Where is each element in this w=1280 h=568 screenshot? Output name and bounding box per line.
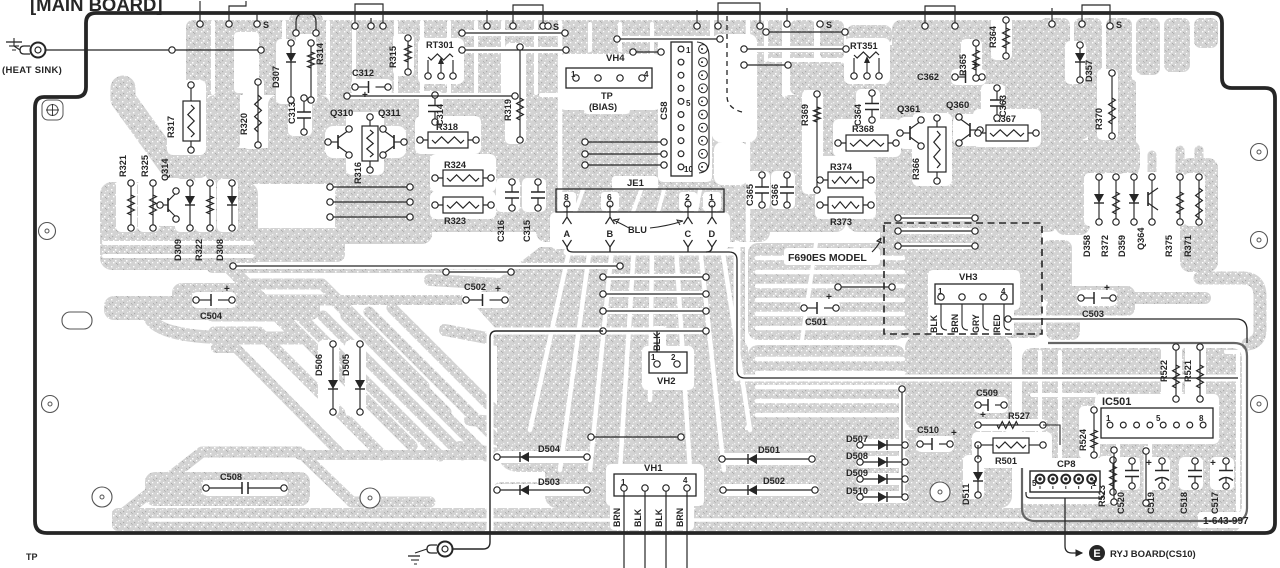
wire — [600, 328, 709, 334]
resistor R320 — [239, 79, 261, 148]
svg-text:VH1: VH1 — [644, 463, 663, 474]
svg-text:BLK: BLK — [929, 314, 939, 333]
slot cutout — [62, 312, 92, 329]
resistor R314 — [308, 40, 325, 103]
svg-text:S: S — [1116, 20, 1122, 30]
svg-text:+: + — [495, 284, 501, 295]
svg-text:1: 1 — [1106, 414, 1111, 423]
capacitor C518 — [1179, 458, 1202, 514]
mounting hole — [360, 488, 380, 508]
wire stub — [254, 12, 269, 30]
svg-text:1: 1 — [1092, 479, 1097, 488]
wires VH3 leads — [941, 304, 1010, 330]
capacitor C509 — [975, 388, 1007, 421]
svg-text:2: 2 — [671, 353, 676, 362]
connector CP8 — [1026, 459, 1104, 498]
wire — [614, 36, 723, 42]
svg-text:2: 2 — [685, 192, 690, 202]
svg-text:C366: C366 — [770, 184, 780, 206]
svg-text:E: E — [1093, 548, 1100, 560]
diode D501 — [719, 445, 815, 464]
svg-text:1: 1 — [651, 353, 656, 362]
svg-text:VH2: VH2 — [657, 376, 675, 387]
svg-text:C502: C502 — [464, 282, 486, 292]
svg-text:C363: C363 — [998, 95, 1008, 117]
wire stub — [1049, 8, 1055, 27]
wire — [741, 62, 791, 68]
svg-text:R524: R524 — [1078, 428, 1088, 451]
svg-text:BRN: BRN — [950, 314, 960, 333]
svg-text:+: + — [980, 410, 986, 421]
svg-text:6: 6 — [607, 192, 612, 202]
diode D307 — [271, 40, 296, 103]
svg-text:R318: R318 — [436, 122, 458, 132]
svg-text:(HEAT SINK): (HEAT SINK) — [2, 65, 62, 76]
resistor R324 — [432, 160, 494, 186]
svg-text:C: C — [685, 229, 692, 239]
svg-text:TP: TP — [601, 91, 613, 101]
svg-text:C508: C508 — [220, 472, 242, 482]
mounting hole — [1251, 144, 1268, 161]
svg-text:R527: R527 — [1008, 411, 1030, 421]
wire — [1111, 447, 1117, 505]
label TP — [26, 552, 38, 562]
svg-text:Q310: Q310 — [330, 108, 353, 119]
svg-text:R325: R325 — [140, 155, 150, 177]
mounting hole — [1251, 232, 1268, 249]
svg-text:RED: RED — [992, 314, 1002, 333]
resistor R365 — [958, 40, 979, 81]
resistor R318 — [417, 122, 479, 148]
resistor R370 — [1094, 70, 1115, 139]
svg-text:5: 5 — [1032, 479, 1037, 488]
wire BLK ground — [452, 331, 657, 549]
resistor R522 — [1159, 344, 1179, 402]
label TP (BIAS) — [589, 91, 617, 112]
resistor R366 — [911, 115, 946, 184]
resistor R321 — [118, 155, 134, 231]
svg-text:D359: D359 — [1117, 235, 1127, 257]
mounting hole — [1251, 396, 1268, 413]
connector VH2 — [649, 352, 687, 387]
ground symbol — [408, 549, 427, 564]
svg-text:R522: R522 — [1159, 360, 1169, 382]
svg-text:D508: D508 — [846, 451, 868, 461]
wire stub — [694, 10, 700, 29]
svg-text:R316: R316 — [353, 162, 363, 184]
svg-text:BRN: BRN — [675, 508, 685, 527]
svg-text:C503: C503 — [1082, 309, 1104, 319]
wire jumper — [510, 5, 546, 29]
diode D503 — [494, 477, 590, 495]
svg-text:R321: R321 — [118, 155, 128, 177]
wire — [600, 291, 709, 297]
wire heat sink to R320 — [45, 47, 264, 53]
svg-text:Q311: Q311 — [378, 108, 401, 119]
label RYJ BOARD(CS10) — [1110, 549, 1196, 560]
capacitor C517 — [1210, 458, 1233, 514]
wire to RYJ — [1065, 498, 1082, 556]
svg-text:1-643-997: 1-643-997 — [1203, 516, 1249, 527]
svg-text:Q360: Q360 — [946, 100, 969, 111]
svg-text:R364: R364 — [988, 25, 998, 48]
resistor R527 — [975, 411, 1046, 428]
svg-text:C518: C518 — [1179, 492, 1189, 514]
svg-text:R501: R501 — [995, 456, 1017, 466]
svg-text:VH3: VH3 — [959, 272, 977, 283]
svg-text:D507: D507 — [846, 434, 868, 444]
wire — [459, 47, 569, 53]
svg-text:VH4: VH4 — [606, 53, 625, 64]
svg-text:Q314: Q314 — [160, 158, 170, 181]
svg-text:Q361: Q361 — [897, 104, 921, 115]
svg-text:R317: R317 — [166, 116, 176, 138]
resistor R322 — [194, 180, 213, 261]
svg-text:JE1: JE1 — [627, 178, 645, 189]
svg-text:C509: C509 — [976, 388, 998, 398]
svg-text:C501: C501 — [805, 317, 827, 327]
wire — [895, 228, 978, 234]
wire — [1005, 316, 1247, 343]
svg-text:+: + — [1210, 458, 1216, 469]
ground (heat sink) — [6, 38, 22, 50]
mounting hole — [930, 482, 950, 502]
svg-text:D308: D308 — [215, 239, 225, 261]
svg-text:[MAIN BOARD]: [MAIN BOARD] — [30, 0, 163, 15]
capacitor C364 — [853, 90, 879, 126]
svg-text:R323: R323 — [444, 216, 466, 226]
wire jumper — [1079, 5, 1113, 29]
label BLK — [652, 332, 662, 351]
wire jumper — [715, 3, 763, 29]
connector CS8 — [659, 42, 707, 176]
svg-text:1: 1 — [938, 287, 943, 296]
svg-text:R374: R374 — [830, 162, 853, 172]
svg-text:R324: R324 — [444, 160, 467, 170]
resistor R323 — [432, 197, 494, 226]
svg-text:BLK: BLK — [654, 508, 664, 527]
wire — [977, 445, 979, 459]
svg-text:IC501: IC501 — [1102, 396, 1131, 408]
svg-text:C315: C315 — [522, 220, 532, 242]
svg-text:C313: C313 — [287, 102, 297, 124]
wire jumper — [226, 1, 246, 27]
wire — [741, 46, 849, 52]
svg-text:D357: D357 — [1084, 60, 1094, 82]
capacitor C510 — [917, 425, 957, 450]
resistor R369 — [800, 91, 820, 193]
mounting hole — [39, 223, 56, 240]
svg-text:R521: R521 — [1183, 360, 1193, 382]
node S — [817, 20, 832, 30]
resistor R368 — [835, 124, 899, 151]
capacitor C519 — [1146, 458, 1169, 514]
connector VH1 — [614, 463, 696, 496]
svg-text:10: 10 — [684, 165, 693, 174]
diode D506 — [314, 341, 338, 415]
resistor R501 — [975, 438, 1046, 466]
capacitor C504 — [193, 284, 235, 321]
diode D507 — [846, 434, 908, 450]
resistor R367 — [975, 114, 1039, 141]
svg-text:Q364: Q364 — [1136, 227, 1146, 250]
capacitor C362 — [917, 60, 985, 83]
diode D359 — [1117, 174, 1139, 257]
capacitor C316 — [496, 179, 519, 242]
capacitor C501 — [801, 292, 839, 327]
node S — [1116, 20, 1122, 30]
svg-text:BLU: BLU — [628, 225, 647, 235]
capacitor C314 — [428, 92, 445, 126]
wire stub — [784, 8, 790, 27]
diode D358 — [1082, 174, 1104, 257]
svg-text:D: D — [709, 229, 716, 239]
mounting hole — [92, 487, 112, 507]
nodes A B C D — [563, 205, 717, 247]
node S — [545, 22, 559, 32]
svg-text:1: 1 — [571, 70, 576, 79]
svg-text:CP8: CP8 — [1057, 459, 1075, 470]
svg-text:R371: R371 — [1183, 235, 1193, 257]
label BLU — [613, 219, 683, 235]
svg-text:R315: R315 — [388, 46, 398, 68]
svg-text:D501: D501 — [758, 445, 780, 455]
RYJ board symbol — [1089, 545, 1105, 561]
label (HEAT SINK) — [2, 65, 62, 76]
transistor Q360 — [946, 100, 983, 146]
svg-text:D511: D511 — [961, 484, 971, 505]
transistor Q361 — [897, 104, 924, 149]
svg-text:R322: R322 — [194, 239, 204, 261]
diode D502 — [720, 476, 818, 495]
svg-text:R370: R370 — [1094, 108, 1104, 130]
wire — [327, 214, 413, 220]
wire VH4 rows — [582, 139, 667, 168]
svg-text:S: S — [263, 20, 269, 30]
svg-text:C510: C510 — [917, 425, 939, 435]
wire — [895, 215, 978, 221]
svg-text:GRY: GRY — [971, 314, 981, 333]
wire — [443, 269, 514, 275]
svg-text:BRN: BRN — [612, 508, 622, 527]
resistor R374 — [817, 162, 874, 188]
resistor R325 — [140, 155, 156, 231]
svg-text:C316: C316 — [496, 220, 506, 242]
wire jumper — [352, 4, 386, 29]
svg-text:C517: C517 — [1210, 492, 1220, 514]
wire — [600, 308, 709, 314]
capacitor C502 — [463, 282, 508, 306]
svg-text:8: 8 — [564, 192, 569, 202]
wire — [600, 274, 709, 280]
capacitor C363 — [990, 85, 1008, 121]
wire — [327, 199, 413, 205]
svg-text:(BIAS): (BIAS) — [589, 102, 617, 112]
svg-text:+: + — [951, 428, 957, 439]
svg-text:D505: D505 — [341, 354, 351, 376]
svg-text:1: 1 — [686, 46, 691, 55]
svg-text:D502: D502 — [763, 476, 785, 486]
wire — [588, 434, 684, 440]
svg-text:+: + — [224, 284, 230, 295]
svg-text:+: + — [1146, 458, 1152, 469]
diode D509 — [846, 468, 908, 484]
resistor R315 — [388, 35, 411, 75]
capacitor C520 — [1116, 458, 1139, 514]
svg-text:C364: C364 — [853, 103, 863, 126]
diode D309 — [173, 180, 195, 261]
svg-text:1: 1 — [621, 478, 626, 487]
connector VH3 — [935, 272, 1013, 304]
sub-board outline — [1022, 343, 1247, 521]
svg-text:D509: D509 — [846, 468, 868, 478]
label IC501 — [1102, 396, 1131, 408]
label F690ES MODEL — [788, 238, 882, 264]
svg-text:5: 5 — [1156, 414, 1161, 423]
svg-text:D358: D358 — [1082, 235, 1092, 257]
diode D308 — [215, 180, 237, 261]
connector JE1 — [556, 178, 724, 212]
diode D508 — [846, 451, 908, 467]
transistor Q364 — [1136, 174, 1158, 250]
svg-text:R372: R372 — [1100, 235, 1110, 257]
svg-text:C365: C365 — [745, 184, 755, 206]
dashed box F690ES MODEL — [884, 223, 1042, 334]
wire jumper — [293, 13, 319, 36]
mounting hole — [42, 396, 59, 413]
svg-text:D506: D506 — [314, 354, 324, 376]
diode D505 — [341, 341, 365, 415]
svg-text:CS8: CS8 — [659, 102, 670, 120]
svg-text:R366: R366 — [911, 158, 921, 180]
capacitor C503 — [1078, 283, 1116, 319]
capacitor C365 — [745, 172, 769, 208]
svg-text:D504: D504 — [538, 444, 561, 454]
capacitor C313 — [287, 95, 311, 135]
svg-text:TP: TP — [26, 552, 38, 562]
wire stub — [368, 18, 374, 29]
svg-text:D510: D510 — [846, 486, 868, 496]
svg-text:4: 4 — [1001, 287, 1006, 296]
svg-text:R368: R368 — [852, 124, 874, 134]
diode D510 — [846, 486, 908, 502]
svg-text:R369: R369 — [800, 104, 810, 126]
wire — [230, 263, 623, 269]
title [MAIN BOARD] — [30, 0, 163, 15]
transistor Q310 — [325, 108, 353, 158]
svg-text:+: + — [826, 292, 832, 303]
wire stub — [484, 10, 490, 29]
wire — [459, 30, 568, 36]
resistor R317 — [166, 82, 200, 153]
label 1-643-997 — [1203, 516, 1249, 527]
resistor R521 — [1183, 344, 1203, 402]
labels VH1 wires — [612, 508, 685, 527]
svg-text:D309: D309 — [173, 239, 183, 261]
trimmer RT351 — [850, 41, 882, 79]
wire — [835, 284, 895, 290]
svg-text:RT301: RT301 — [426, 40, 454, 50]
svg-text:4: 4 — [644, 70, 649, 79]
resistor R523 — [1097, 457, 1116, 507]
svg-text:C362: C362 — [917, 72, 939, 82]
diode D357 — [1075, 42, 1094, 83]
IC IC501 — [1101, 408, 1213, 438]
resistor R372 — [1100, 174, 1119, 257]
transistor Q311 — [378, 108, 407, 158]
svg-text:B: B — [607, 229, 614, 239]
ground ring terminal — [427, 542, 453, 557]
mounting hole — [42, 100, 63, 120]
svg-text:C312: C312 — [352, 68, 374, 78]
svg-text:BLK: BLK — [633, 508, 643, 527]
svg-text:S: S — [553, 22, 559, 32]
svg-text:RYJ BOARD(CS10): RYJ BOARD(CS10) — [1110, 549, 1196, 560]
wire VH1 leads — [624, 491, 687, 568]
svg-text:C504: C504 — [200, 311, 223, 321]
svg-text:R373: R373 — [830, 217, 852, 227]
wire — [1143, 448, 1149, 506]
svg-text:R365: R365 — [958, 54, 968, 76]
resistor R316 — [353, 114, 378, 184]
wire — [763, 29, 848, 35]
svg-text:1: 1 — [709, 192, 714, 202]
svg-text:S: S — [826, 20, 832, 30]
connector VH4 — [566, 53, 652, 88]
wire — [895, 243, 978, 249]
wire — [899, 386, 905, 497]
heat-sink ring terminal — [14, 42, 46, 58]
resistor R375 — [1164, 174, 1183, 257]
wire jumper — [922, 6, 958, 29]
diode D504 — [494, 444, 590, 462]
wire — [327, 184, 413, 190]
wire bus to right — [567, 247, 1238, 378]
transistor Q314 — [157, 158, 179, 223]
resistor R373 — [817, 197, 874, 227]
svg-text:R375: R375 — [1164, 235, 1174, 257]
dashed bracket — [727, 16, 742, 112]
wire — [344, 93, 518, 99]
resistor R371 — [1183, 174, 1202, 257]
trimmer RT301 — [425, 40, 456, 79]
svg-text:D503: D503 — [538, 477, 560, 487]
svg-text:A: A — [564, 229, 571, 239]
svg-text:R320: R320 — [239, 113, 249, 135]
diode D511 — [961, 456, 983, 505]
resistor R319 — [503, 44, 523, 143]
labels VH3 wires — [929, 314, 1002, 333]
capacitor C366 — [770, 172, 794, 208]
capacitor C508 — [203, 472, 287, 494]
wire — [1043, 425, 1060, 445]
svg-text:8: 8 — [1199, 414, 1204, 423]
svg-text:R314: R314 — [315, 42, 325, 65]
svg-text:R319: R319 — [503, 99, 513, 121]
capacitor C312 — [352, 68, 391, 101]
svg-text:F690ES MODEL: F690ES MODEL — [788, 252, 867, 264]
svg-text:D307: D307 — [271, 66, 281, 88]
wire stub — [197, 1, 203, 27]
svg-text:RT351: RT351 — [850, 41, 878, 51]
resistor R524 — [1078, 407, 1097, 458]
svg-text:4: 4 — [683, 476, 688, 485]
wire — [630, 49, 664, 55]
svg-text:5: 5 — [686, 99, 691, 108]
resistor R364 — [988, 17, 1009, 59]
capacitor C315 — [522, 179, 545, 242]
svg-text:+: + — [1104, 283, 1110, 294]
